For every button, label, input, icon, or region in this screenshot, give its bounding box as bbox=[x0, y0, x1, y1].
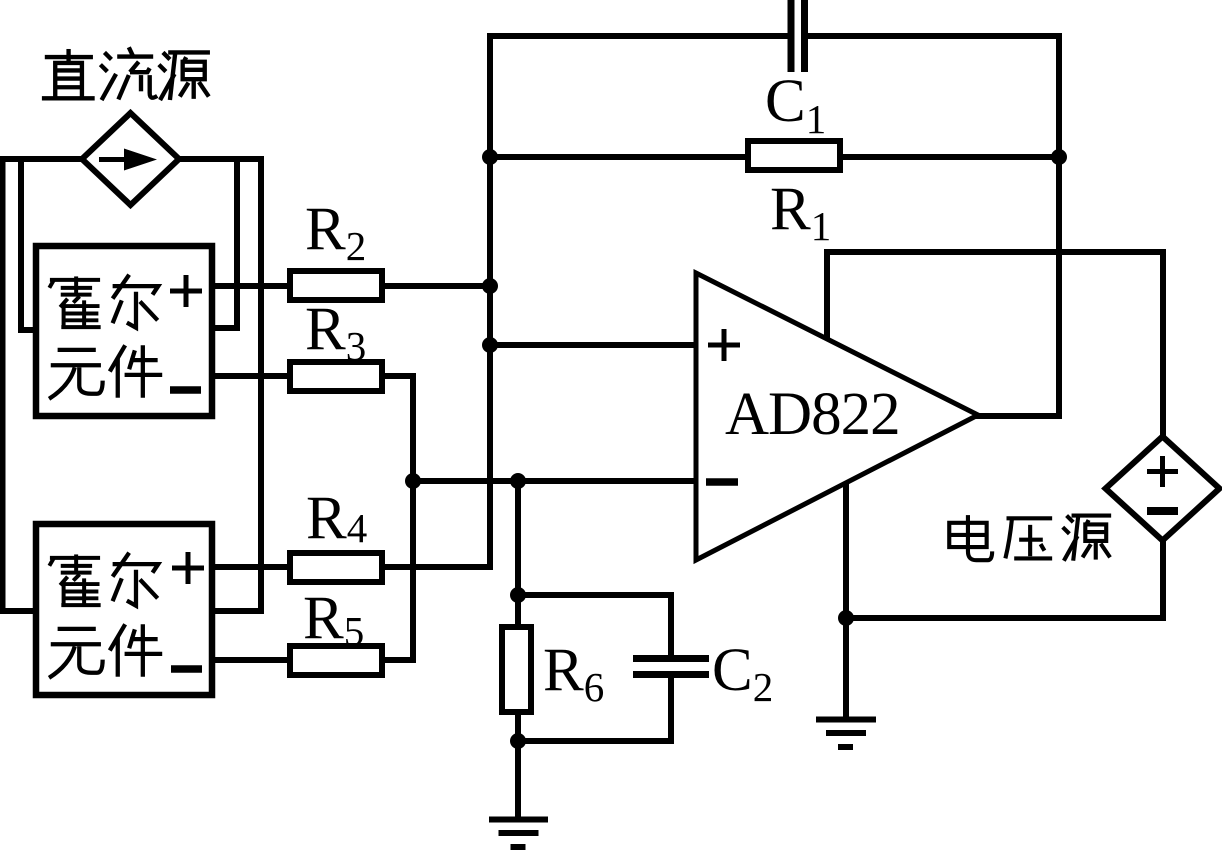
junction dot R6/C2 top bbox=[510, 587, 526, 603]
voltage source diamond bbox=[1106, 437, 1220, 541]
Hall element 1 box bbox=[36, 246, 212, 416]
wire top feedback to C1 plates bbox=[487, 33, 1062, 39]
junction dot R1 left bbox=[482, 149, 498, 165]
Hall1 plus terminal sign bbox=[170, 275, 202, 307]
Hall element 2 box bbox=[36, 524, 212, 695]
label 直流源 (DC source) bbox=[42, 47, 210, 100]
wire op-amp noninverting input bbox=[490, 342, 699, 348]
wire outer-left vertical bbox=[0, 156, 6, 611]
svg-text:C1: C1 bbox=[765, 68, 826, 142]
resistor R5 bbox=[290, 646, 382, 675]
voltage source plus sign bbox=[1147, 456, 1178, 487]
Hall1 minus terminal sign bbox=[170, 386, 201, 394]
wire Hall1 right lead bbox=[210, 325, 240, 331]
resistor R3 bbox=[290, 362, 382, 391]
wire inner-left vertical bbox=[18, 156, 24, 330]
resistor R4 bbox=[290, 553, 382, 582]
wire C2 branch bottom bbox=[518, 676, 671, 741]
svg-text:R6: R6 bbox=[543, 637, 604, 710]
wire op-amp output bbox=[975, 413, 1059, 419]
wire Hall2 plus to R4 bbox=[210, 564, 493, 570]
wire feedback vertical x1059 bbox=[1056, 33, 1062, 419]
resistor R6 bbox=[502, 627, 531, 712]
junction dot R1 right bbox=[1051, 149, 1067, 165]
wire node B vertical x413 bbox=[410, 373, 416, 660]
junction dot R6/C2 bottom bbox=[510, 733, 526, 749]
resistor R2 bbox=[290, 271, 382, 300]
wire R1 branch bbox=[490, 154, 1059, 160]
op-amp minus input marker bbox=[706, 478, 738, 486]
capacitor C2 plates bbox=[633, 659, 709, 675]
current source diamond (DC source symbol) bbox=[82, 113, 179, 205]
wire node A vertical x490 bbox=[487, 33, 493, 570]
svg-text:C2: C2 bbox=[712, 637, 773, 710]
wire C2 branch top bbox=[518, 595, 671, 658]
label 霍尔 (Hall 1 row 1) bbox=[49, 275, 158, 328]
svg-text:R5: R5 bbox=[303, 585, 364, 654]
svg-text:R2: R2 bbox=[305, 196, 366, 269]
label 元件 (Hall 2 row 2) bbox=[49, 624, 162, 678]
junction dot noninverting input bbox=[482, 337, 498, 353]
junction dot R6 branch top bbox=[510, 473, 526, 489]
label 电压源 (voltage source) bbox=[949, 515, 1111, 561]
Hall2 minus terminal sign bbox=[171, 665, 202, 673]
resistor R1 bbox=[748, 141, 840, 170]
svg-text:R1: R1 bbox=[770, 176, 831, 249]
wire R6 branch vertical x518 bbox=[515, 481, 521, 819]
wire op-amp V+ supply to voltage source bbox=[827, 252, 1163, 440]
current source arrow bbox=[99, 157, 130, 162]
wire Hall1 plus to R2 to node A bbox=[210, 283, 490, 289]
svg-text:R3: R3 bbox=[305, 296, 366, 369]
wire op-amp V- to ground bbox=[843, 482, 849, 719]
Hall2 plus terminal sign bbox=[172, 552, 204, 584]
junction dot inverting input left bbox=[405, 473, 421, 489]
label 元件 (Hall 1 row 2) bbox=[49, 345, 162, 399]
op-amp U1 AD822 triangle bbox=[696, 273, 978, 560]
wire Hall2 minus to R5 bbox=[210, 657, 416, 663]
ground under R6 bbox=[489, 817, 548, 850]
wire current-source loop horizontal bbox=[0, 156, 261, 162]
wire voltage source bottom return bbox=[846, 538, 1163, 618]
ground under op-amp V- bbox=[816, 717, 876, 751]
wire op-amp inverting input bbox=[413, 478, 699, 484]
svg-text:AD822: AD822 bbox=[725, 381, 900, 448]
svg-text:R4: R4 bbox=[306, 485, 367, 552]
wire Hall1 left lead bbox=[18, 327, 38, 333]
wire outer-right vertical bbox=[258, 156, 264, 611]
wire Hall1 minus to R3 bbox=[210, 373, 416, 379]
wire Hall2 left lead bbox=[0, 608, 38, 614]
label 霍尔 (Hall 2 row 1) bbox=[49, 553, 158, 606]
junction dot V- ground node bbox=[838, 610, 854, 626]
junction dot R2 output bbox=[482, 278, 498, 294]
op-amp plus input marker bbox=[708, 329, 740, 361]
current source arrow head bbox=[124, 149, 157, 171]
wire inner-right vertical bbox=[234, 156, 240, 328]
capacitor C1 plates bbox=[791, 0, 805, 72]
wire Hall2 right lead bbox=[210, 608, 264, 614]
voltage source minus sign bbox=[1147, 507, 1178, 515]
